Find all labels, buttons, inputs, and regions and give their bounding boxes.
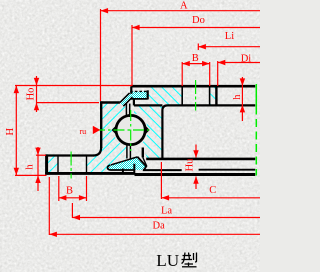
- inner flange top edge: [45, 154, 94, 156]
- dim C line: [162, 197, 261, 199]
- inner flange left edge: [45, 154, 48, 174]
- seal pocket bottom edge: [131, 98, 148, 100]
- svg-text:A: A: [180, 0, 188, 11]
- boot bottom edge: [108, 165, 135, 170]
- arrow B top right: [202, 61, 210, 66]
- hatch outer ring web: [134, 106, 162, 159]
- dim B bottom left extension: [58, 176, 60, 201]
- svg-text:Di: Di: [241, 54, 252, 65]
- bottom seal boot stipple: [108, 157, 146, 170]
- dim A extension: [100, 9, 102, 101]
- dim h left line: [37, 147, 39, 191]
- dim Li line: [198, 46, 260, 48]
- arrow B top left: [182, 61, 190, 66]
- svg-text:Da: Da: [153, 221, 166, 232]
- top seal strip stipple: [120, 93, 133, 106]
- arrow Do: [132, 25, 140, 30]
- top seal slant upper edge: [120, 93, 130, 103]
- web lower-left slant: [143, 157, 147, 166]
- dim A line: [101, 10, 261, 12]
- arrow Li: [198, 44, 206, 49]
- hatch outer ring counterbore sliver: [210, 87, 216, 105]
- outer bolt hole left wall: [181, 86, 183, 105]
- svg-text:Do: Do: [192, 15, 205, 26]
- gap line below ball right: [129, 144, 131, 159]
- ball horizontal centerline: [94, 129, 149, 131]
- outer bolt centerline: [195, 80, 197, 111]
- block bottom edge: [135, 173, 256, 176]
- svg-text:La: La: [161, 206, 172, 217]
- gap line above ball left: [125, 104, 127, 117]
- dim La extension: [71, 203, 73, 218]
- below-boot vertical right: [133, 164, 135, 174]
- dim Hu line: [195, 145, 197, 158]
- dim Ho line: [36, 76, 38, 112]
- outer ring top edge: [131, 85, 255, 88]
- arrow Ho top: [34, 78, 39, 86]
- dim La line: [72, 217, 260, 219]
- inner bolt hole right wall: [86, 156, 88, 173]
- svg-text:LU: LU: [156, 251, 179, 270]
- inner bolt centerline: [70, 152, 72, 179]
- svg-text:H: H: [5, 128, 16, 136]
- arrow Di: [218, 60, 226, 65]
- ball clearing: [113, 113, 147, 147]
- pocket-web step vertical: [133, 99, 135, 106]
- outer bolt hole right wall: [209, 86, 211, 105]
- top seal pocket stipple: [130, 92, 147, 99]
- dim B bottom right extension: [86, 176, 88, 201]
- gap line below ball left: [126, 144, 128, 159]
- right edge line solid part: [255, 84, 257, 107]
- arrow Hu top: [193, 150, 198, 158]
- counterbore wall: [215, 86, 217, 105]
- arrow h left bottom: [35, 175, 40, 183]
- dim Di line: [218, 62, 260, 64]
- arrow A: [101, 8, 109, 13]
- svg-text:C: C: [209, 185, 216, 196]
- top reference extension line: [15, 85, 132, 87]
- svg-text:Ho: Ho: [25, 88, 36, 101]
- svg-text:Li: Li: [225, 31, 234, 42]
- block inner line right segment: [199, 169, 256, 171]
- outer flange underside: [162, 105, 255, 158]
- dim H line: [15, 86, 17, 176]
- dim Da extension: [48, 177, 50, 235]
- top seal slant lower edge: [123, 97, 132, 106]
- boot top edge: [111, 157, 137, 165]
- arrow H top: [14, 86, 19, 94]
- arrow La: [72, 215, 80, 220]
- web top edge: [134, 104, 163, 106]
- block top edge: [146, 158, 255, 161]
- dim Da line: [49, 233, 260, 235]
- h left top extension line: [36, 154, 46, 156]
- arrow h right top: [240, 78, 245, 86]
- dim B top line: [182, 63, 210, 65]
- arrow B bottom left: [59, 195, 67, 200]
- svg-text:B: B: [66, 186, 73, 197]
- svg-text:h: h: [25, 164, 36, 170]
- arrow C: [162, 195, 170, 200]
- ball: [116, 115, 145, 144]
- raceway cusp left: [112, 125, 117, 135]
- outer ring overhang left edge: [130, 86, 132, 94]
- arrow n1: [93, 126, 100, 134]
- Ho bottom extension line: [36, 102, 99, 104]
- boot right slant: [137, 157, 146, 170]
- svg-text:B: B: [192, 53, 199, 64]
- dim Li tick: [197, 44, 199, 51]
- inner ring left edge: [100, 101, 102, 148]
- dim h right line: [241, 77, 243, 121]
- svg-text:h: h: [232, 94, 243, 100]
- dim B top left extension: [181, 62, 183, 86]
- arrow Ho bottom: [34, 103, 39, 111]
- ball vertical centerline: [130, 110, 132, 151]
- dim B top right extension: [209, 62, 211, 86]
- web lower-left vertical: [142, 148, 144, 158]
- arrow H bottom: [14, 168, 19, 176]
- seal pocket right wall: [147, 90, 149, 99]
- inner bolt hole left wall: [57, 156, 59, 173]
- arrow h left top: [35, 148, 40, 156]
- dim B bottom line: [59, 197, 87, 199]
- arrow Hu bottom: [193, 176, 198, 184]
- inner ring neck fillet: [94, 147, 102, 156]
- arrow B bottom right: [79, 195, 87, 200]
- inner ring top edge: [100, 101, 120, 103]
- right edge line dashed part: [255, 107, 257, 176]
- inner flange bottom edge: [45, 172, 134, 175]
- hatch outer ring flange: [149, 87, 182, 105]
- title glyph xing: [182, 253, 197, 267]
- svg-text:ru: ru: [80, 127, 87, 136]
- dim Di extension: [217, 61, 219, 86]
- gap line above ball right: [129, 104, 131, 117]
- seal pocket top dashes: [130, 90, 147, 92]
- arrow Da: [49, 232, 57, 237]
- dim Do line: [132, 27, 260, 29]
- dim C extension: [160, 162, 162, 199]
- dim Do extension: [131, 25, 133, 86]
- bottom reference extension line: [15, 174, 47, 176]
- below-boot vertical left: [122, 169, 124, 174]
- hatch inner ring: [47, 103, 127, 173]
- raceway cusp right: [145, 125, 150, 135]
- arrow h right bottom: [240, 105, 245, 113]
- block inner line left segment: [143, 169, 182, 171]
- svg-text:Hu: Hu: [185, 158, 196, 172]
